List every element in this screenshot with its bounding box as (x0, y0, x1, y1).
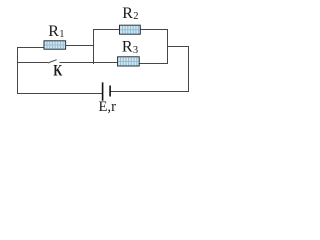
svg-text:R: R (122, 38, 133, 55)
svg-text:1: 1 (59, 29, 64, 40)
svg-text:R: R (122, 5, 133, 22)
svg-text:R: R (48, 23, 59, 40)
svg-text:3: 3 (133, 45, 138, 56)
svg-text:K: K (53, 63, 62, 80)
svg-text:2: 2 (133, 11, 138, 22)
svg-text:E,r: E,r (99, 99, 117, 115)
